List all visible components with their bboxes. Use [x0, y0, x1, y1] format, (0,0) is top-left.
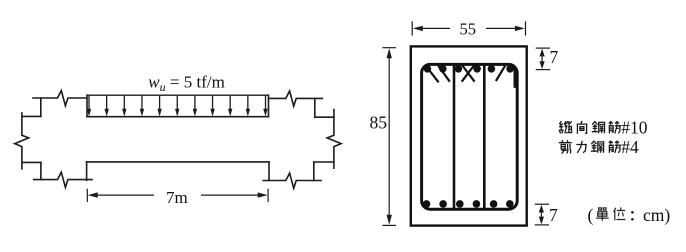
load arrow 7: [193, 96, 197, 117]
55 dim right tick: [525, 21, 527, 35]
stirrup (closed, rounded): [422, 64, 518, 209]
7m dimension: left extension tick: [86, 189, 88, 202]
85 dim line: [388, 55, 390, 218]
glyph 向: [577, 121, 586, 133]
glyph 力: [577, 141, 586, 152]
left cut upper horizontal: [22, 115, 41, 117]
bot7 double arrow: [540, 210, 542, 219]
55 dim right segment: [486, 27, 519, 29]
stirrup interior leg 1: [453, 66, 456, 209]
85 dim bottom tick: [382, 224, 396, 226]
beam top-right edge with break symbol: [269, 91, 323, 106]
svg-text:cm): cm): [643, 205, 670, 225]
top7 double arrow: [541, 54, 543, 64]
hook diagonal cell1 a: [429, 70, 438, 82]
7m dimension line right segment with arrowhead: [201, 194, 261, 196]
55 dim left segment: [419, 27, 450, 29]
hook diagonal cell1 b: [438, 66, 450, 82]
left cut vertical with break symbol: [15, 113, 29, 169]
stirrup interior leg 2: [483, 66, 486, 209]
bottom bar 3: [456, 200, 464, 208]
bottom bar 2: [439, 200, 447, 208]
load arrow 2: [104, 96, 108, 117]
left support step (top): [86, 95, 88, 117]
glyph 剪: [559, 141, 571, 154]
left support step (bottom): [86, 162, 88, 180]
right support step (bottom): [268, 162, 270, 181]
7 dimension (top-right): [536, 48, 550, 70]
top bar 1: [424, 65, 432, 73]
load arrow 1: [87, 96, 91, 117]
left cut lower horizontal: [22, 161, 41, 163]
glyph 位: [614, 208, 625, 220]
load arrow 6: [175, 96, 179, 117]
beam bottom-left edge with break symbol: [34, 172, 92, 187]
load arrow 10: [246, 96, 250, 117]
section outer rectangle (55 x 85): [411, 46, 527, 225]
load arrow 3: [122, 96, 126, 117]
bottom bar 1: [423, 200, 431, 208]
glyph 鋼 (line2): [591, 141, 603, 152]
svg-text:wu = 5 tf/m: wu = 5 tf/m: [148, 72, 225, 94]
glyph 筋 (line2): [609, 141, 621, 152]
svg-text:7m: 7m: [166, 188, 188, 207]
top bar 3: [455, 65, 463, 73]
top bar 5: [488, 65, 496, 73]
beam bottom-right edge with break symbol: [263, 173, 321, 188]
7 dimension (bottom-right): [535, 204, 549, 225]
load arrow 4: [140, 96, 144, 117]
svg-text:(: (: [588, 205, 594, 225]
top7 upper tick: [536, 47, 550, 49]
top7 lower tick: [536, 69, 550, 71]
fullwidth colon: [631, 211, 634, 221]
load arrow 5: [157, 96, 161, 117]
glyph 筋: [609, 122, 621, 133]
right support step (top): [268, 95, 270, 117]
hook diagonal cell3: [496, 65, 506, 81]
bottom bar 5: [490, 200, 498, 208]
top rebar row (6 bars #10): [423, 65, 514, 208]
55 dimension (top): [412, 21, 525, 35]
svg-text:7: 7: [549, 205, 558, 225]
hook cross cell2: [462, 65, 475, 82]
glyph 縱: [559, 122, 572, 133]
load arrow 8: [210, 96, 214, 117]
55 dim left tick: [411, 21, 413, 35]
7m dimension line left segment with arrowhead: [88, 192, 268, 197]
svg-text:#10: #10: [621, 117, 648, 137]
top bar 4: [473, 65, 481, 73]
label line 2: 剪力鋼筋#4: [559, 141, 620, 154]
load arrow 9: [228, 96, 232, 117]
beam bottom line (mid-span): [87, 161, 269, 163]
bottom bar 4: [473, 200, 481, 208]
right cut step: vertical from top edge: [314, 98, 316, 117]
top bar 2: [439, 65, 447, 73]
svg-text:#4: #4: [621, 137, 639, 157]
glyph 鋼: [592, 122, 604, 133]
svg-text:55: 55: [460, 19, 477, 38]
85 dim top tick: [382, 47, 396, 49]
85 dimension (left): [382, 48, 396, 226]
bottom bar 6: [506, 200, 514, 208]
beam top line (mid-span): [87, 116, 269, 118]
bot7 lower tick: [535, 224, 549, 226]
left cut step: vertical from top edge: [40, 98, 42, 116]
glyph 單: [597, 208, 609, 220]
right cut lower horizontal: [314, 161, 334, 163]
load arrow 11: [263, 96, 267, 117]
right cut upper horizontal: [315, 116, 334, 118]
distributed load arrows (11): [87, 96, 268, 117]
svg-text:85: 85: [370, 112, 388, 132]
tie hooks: [429, 65, 505, 83]
left cut step: vertical to bottom edge: [40, 162, 42, 179]
beam top-left edge with break symbol: [33, 91, 87, 106]
7m dimension: right extension tick: [267, 189, 269, 202]
top bar 6: [506, 65, 514, 73]
right cut step: vertical to bottom edge: [313, 162, 315, 181]
stirrup hook tail at top-right: [514, 67, 517, 88]
distributed load top line: [87, 94, 269, 96]
bot7 upper tick: [535, 203, 549, 205]
svg-text:7: 7: [550, 47, 559, 67]
right cut vertical with break symbol: [327, 110, 341, 169]
label line 1: 縱向鋼筋#10: [559, 121, 620, 133]
